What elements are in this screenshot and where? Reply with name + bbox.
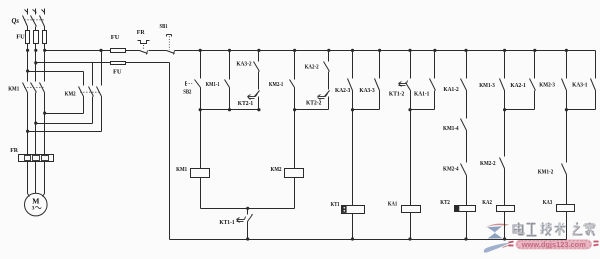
svg-text:KM1: KM1 — [176, 167, 187, 173]
svg-text:KT2-1: KT2-1 — [238, 101, 253, 107]
contactor KM1 main contacts — [8, 83, 44, 114]
svg-text:FR: FR — [137, 30, 146, 36]
svg-text:KM2-4: KM2-4 — [443, 167, 459, 173]
svg-text:KT2: KT2 — [440, 200, 450, 206]
wire phase drops to KM1 — [28, 51, 45, 82]
svg-text:SB1: SB1 — [160, 24, 168, 30]
time relay coil KT2 — [440, 200, 475, 241]
wire phase1 to KM2 pole1 — [28, 72, 84, 86]
svg-text:KM2: KM2 — [65, 90, 76, 97]
wire node F — [565, 108, 596, 111]
svg-text:KM1-2: KM1-2 — [538, 169, 554, 175]
thermal contact FR NC — [137, 30, 167, 55]
wire node A — [199, 108, 261, 111]
svg-text:KM1-3: KM1-3 — [479, 83, 495, 89]
svg-text:KT1-1: KT1-1 — [219, 220, 234, 226]
svg-text:KA3: KA3 — [543, 200, 553, 206]
contact KA3-1 — [572, 51, 595, 110]
stop button SB1 — [160, 24, 175, 54]
contact KM2-3 — [539, 51, 566, 110]
contact KM1-3 — [479, 51, 504, 110]
contactor coil KM2 — [271, 110, 304, 209]
contact KM2-1 — [269, 51, 295, 110]
relay coil KA2 — [482, 200, 514, 241]
svg-text:KA3-2: KA3-2 — [236, 61, 251, 67]
watermark logo — [484, 224, 511, 253]
wire top rail — [175, 50, 596, 52]
contactor KM2 main contacts — [65, 87, 102, 132]
svg-text:KA2-1: KA2-1 — [510, 83, 525, 89]
contact KA1-1 — [414, 51, 436, 110]
svg-text:KA3-1: KA3-1 — [572, 82, 587, 88]
wire bottom rail — [170, 239, 567, 241]
svg-text:KA1-2: KA1-2 — [443, 87, 458, 93]
svg-text:KA3-3: KA3-3 — [359, 88, 374, 94]
relay coil KA3 — [543, 200, 575, 239]
contact KM2-2 — [480, 110, 505, 206]
svg-text:FU: FU — [111, 34, 120, 41]
svg-text:3: 3 — [32, 206, 35, 212]
svg-text:FR: FR — [10, 148, 19, 154]
wire node E — [503, 108, 535, 111]
relay coil KA1 — [388, 110, 421, 241]
svg-text:KT1: KT1 — [331, 202, 340, 208]
contact KA3-3 — [359, 51, 379, 110]
disconnect switch Qs — [12, 9, 45, 31]
wire drops to FR — [28, 114, 45, 155]
wire node C — [351, 108, 380, 111]
svg-text:www.dgjs123.com: www.dgjs123.com — [521, 240, 586, 249]
svg-text:KA2-3: KA2-3 — [335, 88, 350, 94]
contact KM1-1 — [206, 51, 230, 110]
svg-text:KM1: KM1 — [8, 86, 19, 93]
svg-text:KA1-1: KA1-1 — [414, 92, 429, 98]
fuse FU (main 3-pole) — [16, 31, 46, 51]
contact KA3-2 — [236, 51, 259, 90]
svg-text:KM2-1: KM2-1 — [269, 82, 283, 88]
start button SB2 — [183, 51, 200, 110]
wire phase crossover — [26, 112, 102, 133]
contactor coil KM1 — [176, 110, 209, 209]
time contact KT1-1 — [219, 209, 252, 241]
contact KM1-2 — [538, 110, 567, 205]
junction dots on top rail — [199, 49, 568, 52]
svg-text:KA1: KA1 — [388, 201, 397, 207]
svg-text:KA2: KA2 — [482, 200, 492, 206]
watermark text dianGongJiShuZhiJia — [514, 223, 595, 236]
svg-text:FU: FU — [113, 68, 122, 75]
wire phase2 to KM2 pole2 — [36, 63, 93, 86]
svg-text:FU: FU — [16, 34, 25, 41]
contact KA2-2 — [305, 51, 330, 90]
wire coil common — [201, 207, 295, 210]
contact KA2-3 — [335, 51, 353, 110]
svg-text:Qs: Qs — [12, 18, 20, 25]
svg-text:SB2: SB2 — [183, 90, 191, 96]
node junctions on phase lines — [26, 49, 46, 73]
motor M 3-phase — [25, 193, 48, 216]
svg-text:KM2-2: KM2-2 — [480, 161, 496, 167]
svg-text:KA2-2: KA2-2 — [305, 64, 319, 70]
wire node B — [293, 108, 329, 111]
contact KM2-4 — [443, 164, 467, 206]
contact KA2-1 — [510, 51, 535, 110]
svg-text:KM2-3: KM2-3 — [539, 82, 555, 88]
svg-text:KM1-4: KM1-4 — [443, 126, 459, 132]
contact KM1-4 — [443, 119, 467, 163]
wire phase3 to KM2 pole3 and control tap — [45, 49, 111, 86]
time relay coil KT1 — [331, 110, 365, 241]
time contact KT2-1 — [238, 91, 260, 110]
svg-text:KT2-2: KT2-2 — [306, 101, 321, 107]
thermal overload relay FR — [10, 148, 53, 193]
contact KA1-2 — [443, 51, 466, 119]
svg-text:M: M — [32, 196, 39, 205]
svg-text:KT1-2: KT1-2 — [389, 92, 404, 98]
svg-text:KM2: KM2 — [271, 167, 282, 173]
watermark url band — [509, 239, 599, 249]
svg-text:KM1-1: KM1-1 — [206, 82, 220, 88]
wire node D — [408, 108, 434, 111]
fuse FU1 control — [111, 34, 140, 53]
fuse FU2 control — [36, 62, 170, 76]
time contact KT1-2 — [389, 51, 411, 110]
time contact KT2-2 — [306, 91, 330, 110]
wire left rail — [169, 63, 171, 240]
